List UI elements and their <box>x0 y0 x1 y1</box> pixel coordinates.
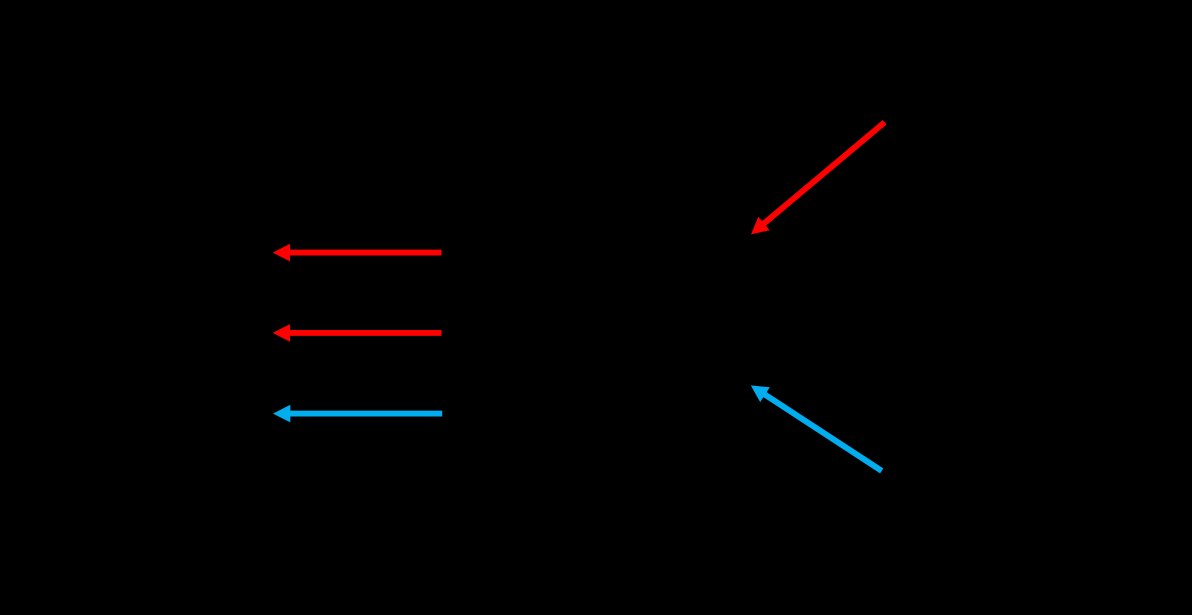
red arrow 2 (horizontal, pointing left, middle) <box>273 324 442 342</box>
red arrow 4 (diagonal, pointing down-left) <box>751 122 885 234</box>
red arrow 1 (horizontal, pointing left, top) <box>273 244 442 262</box>
blue arrow 3 (horizontal, pointing left, bottom) <box>273 405 442 423</box>
blue arrow 5 (diagonal, pointing up-left) <box>751 385 882 471</box>
